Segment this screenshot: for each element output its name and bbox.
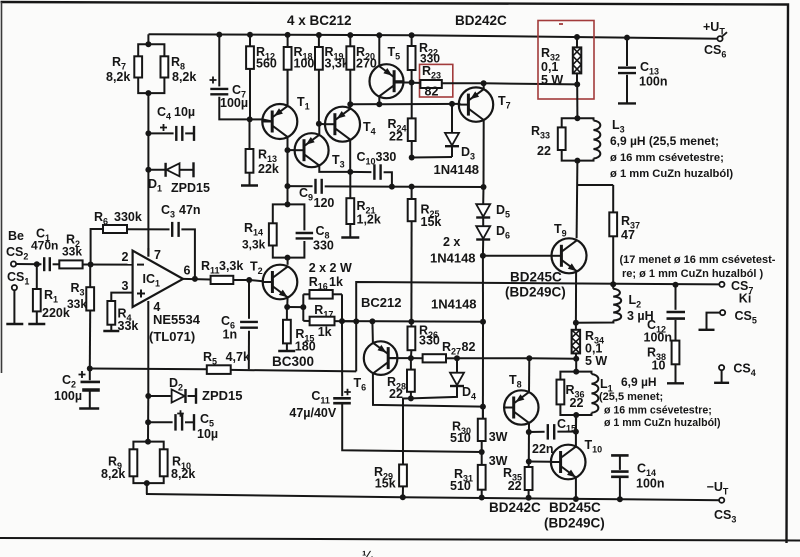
svg-text:22k: 22k bbox=[258, 162, 279, 176]
wire T6 base bbox=[388, 357, 411, 359]
resistor R7 bbox=[134, 56, 142, 77]
wire T8 collector wire to R34 bbox=[529, 357, 576, 360]
wire left column V+ (R7R8 to C4 to D1 to op-amp pin7) bbox=[147, 93, 149, 257]
node C10/R21 junction bbox=[347, 169, 353, 175]
svg-text:8,2k: 8,2k bbox=[106, 70, 130, 84]
svg-text:33k: 33k bbox=[62, 245, 82, 259]
wire +UT top supply rail bbox=[149, 34, 721, 38]
node diode column / driver wire end bbox=[480, 319, 486, 325]
node T4 base junction bbox=[316, 121, 322, 127]
svg-text:47µ/40V: 47µ/40V bbox=[289, 406, 336, 420]
capacitor C15 22n bbox=[529, 431, 545, 433]
wire T9 emitter down bbox=[575, 271, 577, 323]
wire R32 to L3 top bbox=[576, 84, 578, 118]
inductor L2 3uH bbox=[612, 284, 614, 289]
svg-text:1N4148: 1N4148 bbox=[434, 162, 480, 177]
ground bar CS1 bbox=[6, 323, 23, 325]
ground bar R4 bbox=[103, 330, 119, 332]
node R16R17 left bbox=[300, 304, 306, 310]
svg-text:22: 22 bbox=[570, 396, 584, 410]
svg-text:100µ: 100µ bbox=[220, 96, 248, 110]
svg-text:560: 560 bbox=[256, 57, 277, 71]
node R9R10 top bbox=[145, 439, 151, 445]
power resistor R32 0.1 5W bbox=[576, 37, 578, 47]
node C7 rail bbox=[216, 32, 222, 38]
capacitor C8 330 bbox=[288, 204, 305, 230]
svg-text:0,1: 0,1 bbox=[541, 60, 558, 74]
svg-text:3W: 3W bbox=[489, 454, 508, 468]
svg-text:ø 1 mm CuZn huzalból): ø 1 mm CuZn huzalból) bbox=[610, 168, 733, 180]
svg-text:6: 6 bbox=[184, 264, 191, 278]
wire T1 emitter bbox=[287, 70, 289, 106]
capacitor C10 330 bbox=[350, 171, 371, 173]
op-amp minus sign bbox=[137, 264, 144, 266]
power resistor R34 0.1 5W bbox=[575, 323, 577, 330]
transistor T5 bbox=[370, 64, 404, 98]
svg-text:¼: ¼ bbox=[362, 548, 374, 557]
capacitor C4 bbox=[148, 132, 173, 134]
node L1 bottom bbox=[573, 412, 579, 418]
capacitor C1 470n bbox=[43, 257, 45, 271]
svg-text:120: 120 bbox=[314, 196, 335, 210]
wire T8 emitter up bbox=[528, 358, 530, 393]
wire T3 base bbox=[288, 149, 295, 151]
svg-text:100n: 100n bbox=[636, 477, 665, 491]
terminal CS5 bbox=[720, 310, 725, 315]
svg-text:220k: 220k bbox=[42, 306, 70, 320]
wire T1 base bbox=[250, 118, 263, 120]
svg-text:4 x BC212: 4 x BC212 bbox=[287, 13, 352, 28]
node R1 top bbox=[34, 261, 40, 267]
svg-text:3,3k: 3,3k bbox=[325, 57, 349, 71]
svg-text:Ki: Ki bbox=[739, 292, 752, 306]
diode D4 1N4148 bbox=[456, 358, 458, 372]
wire -UT bottom supply rail bbox=[146, 494, 722, 500]
resistor R6 330k bbox=[103, 225, 127, 233]
svg-text:ZPD15: ZPD15 bbox=[171, 181, 210, 195]
resistor R29 15k bbox=[399, 465, 407, 487]
wire T7 emitter bbox=[483, 83, 485, 89]
inductor L1 bbox=[576, 372, 591, 374]
wire pin7 stub bbox=[147, 248, 149, 257]
node R34 bottom bbox=[573, 356, 579, 362]
wire T7 collector to D5 bbox=[482, 187, 484, 204]
node L2 top / R37 bottom bbox=[610, 281, 616, 287]
svg-text:8,2k: 8,2k bbox=[101, 467, 125, 481]
svg-text:(25,5 menet;: (25,5 menet; bbox=[599, 391, 663, 403]
ground bar R13 bbox=[241, 184, 258, 186]
svg-text:33k: 33k bbox=[67, 297, 87, 311]
terminal CS1 bbox=[12, 285, 17, 290]
svg-text:510: 510 bbox=[450, 431, 471, 445]
node C9 junction bbox=[285, 183, 291, 189]
resistor R22 bbox=[411, 35, 413, 46]
svg-text:15k: 15k bbox=[421, 215, 442, 229]
wire pin4 column to C5 bbox=[147, 396, 149, 442]
resistor R23 bbox=[412, 82, 421, 84]
svg-text:ZPD15: ZPD15 bbox=[202, 388, 242, 403]
resistor R30 510 3W bbox=[482, 407, 484, 419]
node T8 collector wire bbox=[526, 355, 532, 361]
svg-text:22n: 22n bbox=[532, 442, 554, 456]
svg-text:10µ: 10µ bbox=[197, 427, 218, 441]
node R32 rail bbox=[574, 34, 580, 40]
svg-text:2 x: 2 x bbox=[443, 235, 460, 249]
transistor T10 bbox=[551, 445, 586, 480]
node R28 bottom bbox=[408, 395, 414, 401]
node L3 top bbox=[574, 115, 580, 121]
capacitor C6 1n bbox=[248, 280, 250, 319]
wire R28 bottom down to R29 bbox=[403, 398, 411, 464]
resistor R36 22 bbox=[560, 372, 576, 380]
wire T10 base bbox=[529, 461, 551, 463]
terminal -UT CS3 bbox=[719, 498, 724, 503]
svg-text:ø 16 mm csévetestre;: ø 16 mm csévetestre; bbox=[604, 405, 712, 417]
wire T10 collector up bbox=[575, 415, 577, 447]
resistor R31 510 3W bbox=[481, 452, 483, 465]
node T3 base junction bbox=[285, 147, 291, 153]
resistor R11 3.3k bbox=[183, 278, 211, 281]
transistor T6 bbox=[364, 341, 398, 375]
svg-text:22: 22 bbox=[389, 387, 403, 401]
wire R24 to D3 cathode bbox=[412, 156, 452, 159]
node L2 bottom wire bbox=[573, 320, 579, 326]
terminal +UT CS6 bbox=[717, 36, 722, 41]
node C12 top bbox=[673, 282, 679, 288]
node D2 junction bbox=[145, 393, 151, 399]
svg-text:330k: 330k bbox=[114, 210, 142, 224]
ground bar C2 bbox=[79, 407, 99, 409]
node op-amp output bbox=[192, 276, 198, 282]
resistor R27 82 bbox=[411, 357, 423, 359]
svg-text:(TL071): (TL071) bbox=[149, 329, 195, 344]
capacitor C5 10u bbox=[148, 421, 173, 423]
capacitor C13 100n bbox=[626, 38, 628, 66]
wire T6 collector down bbox=[373, 373, 483, 406]
svg-text:22: 22 bbox=[537, 144, 551, 158]
svg-text:22: 22 bbox=[389, 130, 403, 144]
svg-text:BD245C: BD245C bbox=[549, 500, 601, 515]
svg-text:1n: 1n bbox=[223, 328, 238, 342]
resistor R15 180 bbox=[286, 307, 288, 320]
ground bar R15 bbox=[278, 350, 295, 352]
red box around R32 bbox=[538, 21, 594, 100]
ground bar CS4 bbox=[714, 382, 729, 384]
svg-text:3,3k: 3,3k bbox=[242, 238, 266, 252]
svg-text:6,9 µH: 6,9 µH bbox=[621, 375, 657, 389]
resistor R4 33k bbox=[107, 301, 115, 325]
transistor T4 bbox=[325, 107, 360, 142]
wire pin4 down bbox=[147, 301, 149, 396]
svg-text:NE5534: NE5534 bbox=[153, 312, 201, 327]
wire T2 base bbox=[249, 280, 263, 281]
node R12 rail bbox=[247, 32, 253, 38]
svg-text:(BD249C): (BD249C) bbox=[505, 285, 566, 300]
resistor R20 bbox=[349, 35, 351, 46]
node T1 base junction bbox=[247, 116, 253, 122]
capacitor C3 47n bbox=[171, 222, 173, 237]
node R14C8 top bbox=[285, 201, 291, 207]
resistor R33 bbox=[562, 118, 578, 127]
svg-text:510: 510 bbox=[450, 479, 471, 493]
svg-text:(17 menet ø 16 mm csévetest-: (17 menet ø 16 mm csévetest- bbox=[620, 254, 776, 266]
svg-text:100: 100 bbox=[294, 57, 315, 71]
wire CS1 to ground bbox=[13, 290, 15, 324]
svg-text:47: 47 bbox=[621, 228, 635, 242]
node R22 rail bbox=[409, 32, 415, 38]
svg-text:1k: 1k bbox=[329, 275, 343, 289]
svg-text:330: 330 bbox=[419, 334, 440, 348]
svg-text:8,2k: 8,2k bbox=[171, 467, 195, 481]
svg-text:1N4148: 1N4148 bbox=[431, 297, 477, 312]
capacitor C14 100n bbox=[611, 454, 629, 457]
ground bar R21 bbox=[341, 236, 359, 238]
node T6 base / R26 / R27 / R28 bbox=[408, 355, 414, 361]
wire T5 collector bbox=[378, 97, 380, 105]
node R35 rail bbox=[526, 495, 532, 501]
node T10 rail bbox=[573, 496, 579, 502]
diode D1 ZPD15 bbox=[148, 169, 165, 171]
svg-text:1N4148: 1N4148 bbox=[430, 251, 476, 266]
wire T2 collector bbox=[287, 258, 289, 265]
wire T8 collector down bbox=[528, 422, 530, 461]
resistor R13 bbox=[249, 119, 251, 149]
wire pin3 bbox=[111, 293, 132, 301]
node T2 collector bbox=[285, 255, 291, 261]
wire T6 emitter up bbox=[371, 321, 374, 343]
node R27 right / D4 top bbox=[454, 355, 460, 361]
node R18 rail bbox=[285, 32, 291, 38]
terminal CS4 bbox=[719, 365, 724, 370]
diode D6 1N4148 bbox=[476, 226, 490, 239]
svg-text:4,7k: 4,7k bbox=[226, 350, 250, 364]
wire T4 collector bbox=[349, 140, 351, 172]
diode D3 1N4148 bbox=[451, 104, 453, 133]
svg-text:180: 180 bbox=[295, 340, 316, 354]
wire T5-collector to T7 base bbox=[350, 103, 460, 105]
op-amp plus sign bbox=[137, 290, 145, 298]
capacitor C2 100u bbox=[89, 369, 91, 381]
wire R37 top link bbox=[577, 184, 613, 186]
node R20 rail bbox=[347, 32, 353, 38]
wire T3 collector bbox=[319, 166, 350, 172]
resistor R3 33k bbox=[89, 265, 91, 288]
wire R34 to L1 top bbox=[575, 359, 577, 372]
wire T10 emitter down bbox=[575, 477, 577, 499]
svg-text:3,3k: 3,3k bbox=[219, 259, 243, 273]
wire R16R17 node to T6 emitter line bbox=[342, 320, 483, 323]
inductor L3 bbox=[577, 118, 593, 120]
wire R27 node to T8 collector bbox=[457, 357, 529, 359]
wire D6 column down to mid bbox=[482, 256, 484, 322]
transistor T3 bbox=[295, 133, 329, 167]
node D1 junction bbox=[145, 167, 151, 173]
transistor T9 bbox=[552, 238, 587, 273]
node mid column top bbox=[353, 318, 359, 324]
svg-text:33k: 33k bbox=[118, 319, 139, 333]
wire feedback up to R6 bbox=[91, 229, 103, 265]
svg-text:470n: 470n bbox=[31, 239, 58, 253]
svg-text:15k: 15k bbox=[375, 477, 396, 491]
resistor R37 bbox=[612, 185, 614, 212]
transistor T8 bbox=[504, 390, 538, 424]
wire T5 base bbox=[394, 82, 411, 84]
transistor T7 bbox=[459, 87, 493, 121]
ground bar R1 bbox=[28, 323, 45, 325]
wire D5D6 column to T8 region bbox=[482, 322, 484, 419]
resistor R21 1.2k bbox=[349, 172, 351, 198]
node T5 collector wire bbox=[376, 101, 382, 107]
svg-text:100n: 100n bbox=[644, 331, 673, 345]
red box around R23 bbox=[420, 64, 453, 97]
node T8 base junction bbox=[480, 404, 486, 410]
node T2 emitter bbox=[284, 304, 290, 310]
op-amp IC1 triangle bbox=[133, 251, 183, 307]
resistor R19 bbox=[318, 35, 320, 47]
node T4 emitter / R20 / T5 collector bbox=[347, 101, 353, 107]
svg-text:82: 82 bbox=[462, 340, 476, 354]
wire R5 feedback line bbox=[90, 368, 207, 371]
resistor R16 1k bbox=[303, 293, 309, 295]
svg-text:(BD249C): (BD249C) bbox=[544, 516, 605, 531]
svg-text:5 W: 5 W bbox=[585, 354, 607, 368]
ground bar R38 bbox=[667, 382, 684, 384]
wire T2 emitter bbox=[286, 297, 288, 307]
node T2 base bbox=[246, 277, 252, 283]
node R29 rail bbox=[400, 494, 406, 500]
wire R9R10 to -UT rail bbox=[146, 483, 148, 494]
terminal CS7 Ki output bbox=[719, 282, 724, 287]
resistor R26 330 bbox=[410, 322, 412, 327]
node R35 top / T10 base bbox=[526, 459, 532, 465]
svg-text:BD242C: BD242C bbox=[489, 500, 541, 515]
wire T9 base bbox=[483, 255, 552, 257]
wire C3 to output node bbox=[181, 229, 195, 279]
node T7 emitter junction bbox=[481, 80, 487, 86]
svg-text:22: 22 bbox=[508, 479, 522, 493]
node C14 rail bbox=[617, 496, 623, 502]
node R16R17 right bbox=[339, 318, 345, 324]
capacitor C12 100n bbox=[675, 285, 677, 310]
svg-text:1k: 1k bbox=[318, 325, 332, 339]
node R22/R23/T5 base bbox=[409, 80, 415, 86]
wire input bbox=[16, 263, 41, 265]
svg-text:8,2k: 8,2k bbox=[172, 70, 196, 84]
node R24 column crossing C9 wire bbox=[409, 184, 415, 190]
resistor R18 bbox=[287, 35, 289, 47]
node R7R8 top bbox=[145, 41, 151, 47]
node input summing bbox=[88, 262, 94, 268]
node T5 rail bbox=[376, 32, 382, 38]
resistor R8 bbox=[161, 56, 169, 77]
node R31 rail bbox=[479, 495, 485, 501]
wire mid column to R5 wire bbox=[355, 321, 357, 371]
svg-text:ø 1 mm CuZn huzalból): ø 1 mm CuZn huzalból) bbox=[604, 417, 721, 429]
capacitor C9 120 bbox=[288, 185, 313, 187]
wire T2 emitter to R16R17 bracket bbox=[287, 306, 303, 308]
svg-text:6,9 µH (25,5 menet;: 6,9 µH (25,5 menet; bbox=[610, 134, 719, 148]
svg-text:BD242C: BD242C bbox=[455, 13, 507, 28]
transistor T1 bbox=[262, 104, 297, 139]
resistor R5 4.7k bbox=[207, 365, 231, 374]
node R26 top bbox=[408, 319, 414, 325]
node D3 anode bbox=[449, 101, 455, 107]
svg-text:Be: Be bbox=[8, 229, 24, 243]
wire C1 to R2 bbox=[53, 263, 60, 265]
node L1 top bbox=[573, 369, 579, 375]
svg-text:82: 82 bbox=[425, 85, 439, 99]
resistor R2 33k bbox=[59, 260, 82, 268]
node R9R10 bottom bbox=[144, 480, 150, 486]
diode D5 1N4148 bbox=[476, 204, 490, 217]
wire T1 collector bbox=[287, 137, 289, 150]
svg-text:7: 7 bbox=[154, 248, 161, 262]
svg-text:10: 10 bbox=[652, 359, 666, 373]
node C9 wire end bbox=[481, 184, 487, 190]
node C10 right junction bbox=[389, 184, 395, 190]
wire T4 base bbox=[319, 123, 325, 126]
wire R23 junction to R32 bbox=[484, 83, 578, 84]
svg-text:1,2k: 1,2k bbox=[357, 213, 381, 227]
svg-text:10µ: 10µ bbox=[174, 105, 195, 119]
svg-text:100n: 100n bbox=[639, 75, 668, 89]
node R19 rail bbox=[316, 32, 322, 38]
node C15 right bbox=[573, 429, 579, 435]
node C2 junction bbox=[87, 366, 93, 372]
capacitor C11 47u/40V bbox=[341, 321, 343, 396]
svg-text:ø 16 mm csévetestre;: ø 16 mm csévetestre; bbox=[610, 152, 724, 164]
node C15 left bbox=[526, 429, 532, 435]
svg-text:BC300: BC300 bbox=[272, 354, 314, 369]
wire R6 to C3 bbox=[127, 228, 170, 230]
resistor R10 8.2k bbox=[148, 442, 164, 450]
node R30 R31 junction bbox=[479, 449, 485, 455]
resistor R28 22 bbox=[410, 358, 412, 370]
svg-text:47n: 47n bbox=[179, 203, 201, 217]
wire R2 to op-amp pin2 bbox=[83, 264, 133, 266]
svg-text:3W: 3W bbox=[489, 430, 508, 444]
wire L3 bottom to T9 collector bbox=[576, 161, 579, 239]
resistor R1 220k bbox=[36, 264, 38, 289]
node T9 base / D6 bottom bbox=[480, 253, 486, 259]
resistor R14 3.3k bbox=[273, 204, 288, 223]
svg-text:5 W: 5 W bbox=[541, 73, 563, 87]
svg-text:3: 3 bbox=[122, 279, 129, 293]
wire T4 emitter bbox=[349, 104, 351, 109]
resistor R24 bbox=[411, 83, 413, 119]
svg-text:BC212: BC212 bbox=[361, 295, 401, 310]
resistor R25 15k bbox=[411, 187, 413, 199]
ground bar CS5 bbox=[699, 329, 715, 331]
node C4 junction bbox=[145, 130, 151, 136]
wire L1 bottom to T10 collector bbox=[575, 415, 577, 432]
svg-text:330: 330 bbox=[313, 239, 334, 253]
resistor R12 bbox=[249, 35, 251, 47]
resistor R9 8.2k bbox=[133, 442, 148, 450]
wire T5 emitter to rail bbox=[378, 35, 380, 66]
svg-text:2: 2 bbox=[122, 250, 129, 264]
node C5 junction bbox=[145, 419, 151, 425]
node R7R8 bottom bbox=[145, 90, 151, 96]
node L3 bottom bbox=[574, 158, 580, 164]
resistor R38 10 bbox=[672, 341, 680, 365]
resistor R17 1k bbox=[310, 317, 335, 326]
wire T7 collector down bbox=[483, 120, 485, 187]
transistor T2 bbox=[263, 265, 298, 300]
node R32 bottom bbox=[574, 81, 580, 87]
terminal CS2 bbox=[11, 261, 16, 266]
wire R7/R8 bracket bbox=[138, 44, 164, 56]
